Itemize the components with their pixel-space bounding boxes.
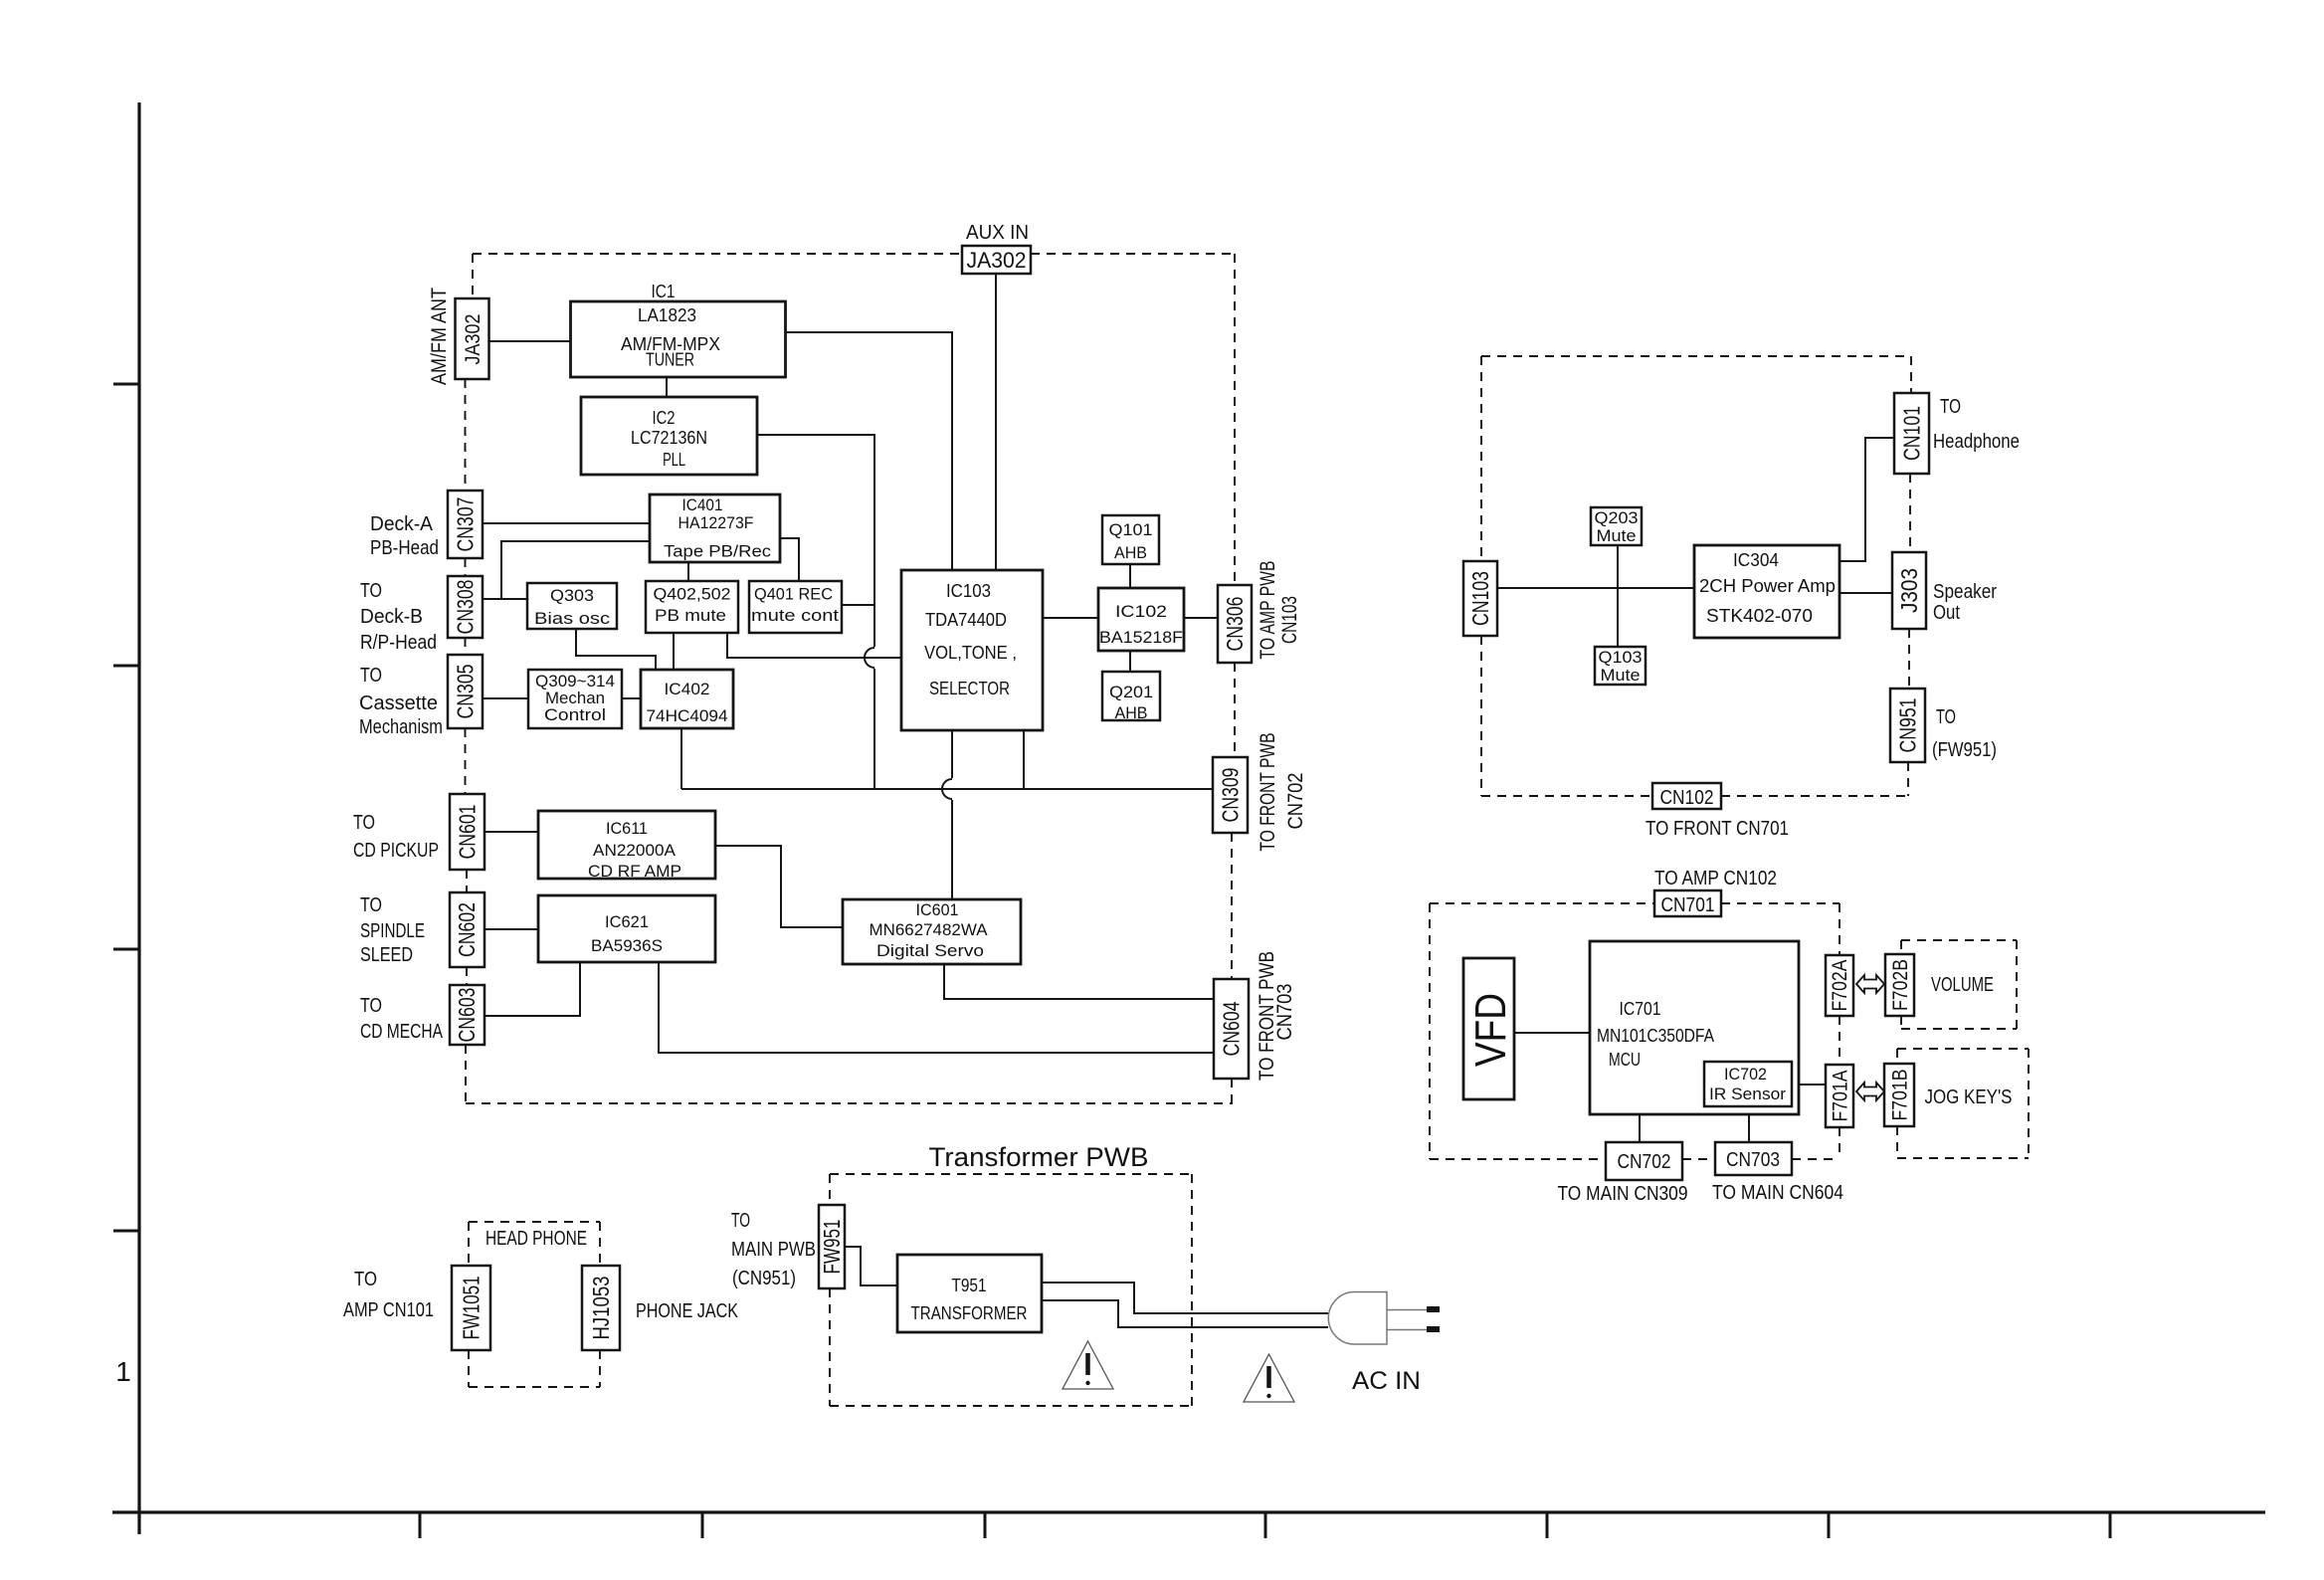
svg-text:AMP CN101: AMP CN101 [343, 1299, 434, 1321]
svg-text:Tape PB/Rec: Tape PB/Rec [664, 542, 772, 561]
svg-text:CN308: CN308 [453, 580, 479, 635]
IC block IC102 BA15218F [1098, 588, 1184, 651]
label TO (FW951) [1932, 706, 1997, 761]
svg-text:SLEED: SLEED [360, 944, 413, 966]
svg-text:T951: T951 [952, 1276, 987, 1295]
transistor block Q309~314 mechan control [528, 670, 622, 728]
svg-text:JA302: JA302 [967, 248, 1027, 273]
svg-text:Deck-B: Deck-B [360, 606, 423, 628]
svg-text:Bias osc: Bias osc [534, 609, 611, 628]
wire IC1 to IC2 [666, 377, 668, 397]
transistor block Q201 AHB [1102, 672, 1160, 722]
wire T951 AC line B [1042, 1300, 1328, 1327]
svg-text:IC102: IC102 [1115, 602, 1167, 621]
frame bottom ticks [420, 1512, 2110, 1538]
connector J303 [1892, 552, 1926, 629]
AC plug prong 2 [1387, 1326, 1440, 1332]
svg-text:TO: TO [360, 894, 382, 916]
svg-text:CN307: CN307 [453, 497, 479, 552]
svg-text:AC IN: AC IN [1352, 1367, 1421, 1395]
IC block IC701 MN101C350DFA MCU [1590, 941, 1799, 1114]
transistor block Q101 AHB [1102, 515, 1159, 564]
svg-text:1: 1 [115, 1356, 131, 1387]
amp PWB dashed border bottom seg1 [1481, 795, 1652, 797]
svg-text:PB mute: PB mute [655, 606, 726, 625]
svg-text:IC402: IC402 [665, 680, 710, 698]
main PWB dashed border right seg4 [1231, 1079, 1233, 1103]
amp PWB dashed border left seg1 [1480, 356, 1482, 561]
wire IC402 to bus corner [680, 728, 682, 789]
label TO FRONT CN701 [1646, 818, 1789, 840]
svg-text:CN703: CN703 [1726, 1149, 1780, 1171]
svg-text:PHONE JACK: PHONE JACK [636, 1300, 739, 1322]
dashed link CN308 to CN305 [465, 638, 467, 655]
svg-text:CN702: CN702 [1618, 1151, 1671, 1173]
wire IC601 to CN604 [944, 964, 1214, 999]
transistor block Q103 mute [1595, 647, 1646, 685]
svg-text:HEAD PHONE: HEAD PHONE [485, 1228, 587, 1250]
svg-text:IC103: IC103 [946, 581, 991, 601]
wire FW951 to T951 [845, 1247, 897, 1285]
svg-text:74HC4094: 74HC4094 [647, 706, 728, 725]
AC plug body [1328, 1292, 1387, 1345]
connector F701A [1826, 1065, 1853, 1127]
label Speaker Out [1933, 581, 1997, 624]
connector CN604 [1214, 979, 1249, 1079]
wire Q303 to IC402 [576, 629, 656, 670]
label TO CD MECHA [360, 995, 444, 1043]
svg-text:IC702: IC702 [1724, 1065, 1767, 1084]
wire Q402 to IC103 [727, 633, 901, 658]
svg-text:CN702: CN702 [1284, 773, 1307, 830]
dashed link CN603 to border [465, 1045, 467, 1103]
svg-text:Q203: Q203 [1595, 508, 1639, 527]
svg-text:F702A: F702A [1829, 960, 1851, 1012]
label TO FRONT PWB CN702 [1257, 733, 1307, 852]
svg-text:TO: TO [1940, 396, 1961, 418]
label HEAD PHONE [485, 1228, 587, 1250]
svg-text:TO FRONT CN701: TO FRONT CN701 [1646, 818, 1789, 840]
svg-text:CN603: CN603 [454, 988, 480, 1043]
connector CN102 [1652, 783, 1721, 809]
IC block IC1 LA1823 tuner [571, 301, 786, 377]
warning triangle inside transformer box [1063, 1341, 1113, 1389]
svg-text:CN101: CN101 [1899, 406, 1925, 461]
label VOLUME [1931, 974, 1994, 996]
frame bottom border line [112, 1510, 2265, 1513]
svg-text:BA15218F: BA15218F [1099, 628, 1183, 647]
dashed box JOG KEY'S [1897, 1049, 2029, 1158]
label Deck-A PB-Head [370, 513, 439, 559]
connector JA302 AM/FM ANT [456, 298, 489, 379]
svg-text:CN601: CN601 [455, 805, 481, 860]
wire CN103 to IC304 [1497, 587, 1694, 589]
svg-text:PB-Head: PB-Head [370, 537, 439, 559]
dashed link CN702 to CN703 [1682, 1158, 1715, 1160]
frame left tick 4 [113, 1230, 139, 1233]
front PWB dashed border top seg1 [1430, 902, 1654, 904]
label PHONE JACK [636, 1300, 739, 1322]
svg-text:CN305: CN305 [453, 665, 479, 719]
svg-text:LC72136N: LC72136N [631, 428, 707, 448]
IC block IC401 HA12273F [650, 494, 780, 562]
connector F701B [1884, 1064, 1914, 1126]
label TO SPINDLE SLEED [360, 894, 425, 966]
dashed box VOLUME [1901, 940, 2017, 1029]
frame left border line [137, 102, 140, 1534]
svg-text:CN309: CN309 [1218, 768, 1244, 823]
zone label 1 [115, 1356, 131, 1387]
svg-text:Out: Out [1933, 602, 1960, 624]
svg-text:TO: TO [353, 812, 375, 834]
label AC IN [1352, 1367, 1421, 1395]
dashed link F702A to F701A [1839, 1016, 1840, 1065]
svg-text:SPINDLE: SPINDLE [360, 920, 425, 942]
connector CN309 [1213, 757, 1248, 833]
wire CN601 to IC611 [484, 831, 538, 833]
connector F702B [1885, 954, 1914, 1016]
connector CN306 [1218, 585, 1252, 663]
svg-text:TO: TO [354, 1269, 377, 1290]
svg-text:FW1051: FW1051 [459, 1277, 484, 1340]
IC block IC103 TDA7440D selector [901, 570, 1043, 730]
svg-text:IC304: IC304 [1733, 550, 1779, 570]
bus wire to CN309 [681, 788, 1213, 790]
svg-text:AM/FM ANT: AM/FM ANT [428, 288, 451, 385]
svg-text:TO AMP CN102: TO AMP CN102 [1654, 868, 1777, 889]
dashed link CN601 to CN602 [466, 870, 468, 892]
double arrow F702A-F702B [1856, 975, 1884, 993]
dashed link CN305 to CN601 [465, 728, 467, 794]
connector JA302 AUX IN [962, 246, 1031, 274]
svg-text:CN306: CN306 [1222, 597, 1248, 652]
connector CN305 [448, 655, 483, 728]
svg-text:TDA7440D: TDA7440D [925, 610, 1007, 630]
wire Q402 to IC402 [673, 633, 675, 670]
wire IC611 to IC601 [715, 846, 843, 927]
svg-text:F701B: F701B [1889, 1070, 1912, 1121]
svg-text:CN604: CN604 [1219, 1001, 1245, 1056]
wire IC401 to Q401 [780, 538, 799, 581]
svg-text:MN101C350DFA: MN101C350DFA [1597, 1026, 1714, 1046]
label AUX IN [966, 222, 1029, 244]
svg-text:IC701: IC701 [1620, 999, 1661, 1019]
svg-text:TO FRONT PWB: TO FRONT PWB [1257, 733, 1279, 852]
svg-text:CD PICKUP: CD PICKUP [353, 840, 439, 862]
svg-text:Q401 REC: Q401 REC [754, 585, 833, 604]
IC block IC601 MN6627482WA digital servo [843, 899, 1021, 964]
svg-text:CN103: CN103 [1467, 571, 1493, 626]
dashed link CN307 to CN308 [465, 558, 467, 576]
wire IC701 to CN702 [1639, 1114, 1641, 1142]
svg-text:CN103: CN103 [1278, 596, 1301, 644]
svg-text:TO: TO [360, 580, 382, 602]
svg-text:SELECTOR: SELECTOR [929, 679, 1010, 698]
IC block IC304 2CH power amp [1694, 545, 1840, 638]
amp PWB dashed border left seg2 [1480, 636, 1482, 796]
wire IC103 to bus [1023, 730, 1025, 789]
label TO CD PICKUP [353, 812, 439, 862]
svg-text:IC401: IC401 [682, 495, 723, 514]
IC block IC2 LC72136N PLL [581, 397, 757, 475]
dashed box HEAD PHONE [469, 1222, 600, 1387]
connector CN101 [1894, 393, 1929, 474]
label TO FRONT PWB CN703 [1256, 951, 1296, 1081]
label TO MAIN CN604 [1712, 1182, 1843, 1204]
connector HJ1053 [582, 1266, 620, 1350]
label TO AMP CN101 [343, 1269, 434, 1321]
svg-text:BA5936S: BA5936S [591, 936, 663, 955]
wire IC304 to J303 [1840, 592, 1892, 594]
display block VFD [1463, 958, 1515, 1099]
svg-text:Mute: Mute [1601, 666, 1641, 685]
svg-text:VOLUME: VOLUME [1931, 974, 1994, 996]
wire JA302 ANT to IC1 [489, 340, 571, 342]
main PWB dashed border right seg3 [1231, 833, 1233, 979]
svg-text:CN701: CN701 [1661, 894, 1715, 916]
label AM/FM ANT [428, 288, 451, 385]
svg-text:TO: TO [360, 665, 382, 687]
svg-text:Speaker: Speaker [1933, 581, 1997, 603]
dashed link CN951 to border [1907, 762, 1909, 796]
svg-text:CD RF AMP: CD RF AMP [588, 862, 681, 881]
dashed link JA302 to CN307 [465, 379, 467, 491]
connector FW951 [819, 1205, 845, 1288]
wire T951 AC line A [1042, 1283, 1328, 1313]
label TO Deck-B R/P-Head [360, 580, 437, 654]
main PWB dashed border left drop [472, 254, 474, 298]
svg-text:IR Sensor: IR Sensor [1709, 1085, 1786, 1103]
svg-text:F702B: F702B [1889, 959, 1912, 1011]
connector CN307 [448, 491, 483, 558]
svg-text:Q101: Q101 [1109, 520, 1153, 539]
connector CN602 [450, 892, 484, 967]
svg-text:TO: TO [731, 1210, 750, 1232]
warning triangle near AC IN [1244, 1354, 1294, 1402]
svg-text:(CN951): (CN951) [732, 1268, 796, 1289]
svg-text:Headphone: Headphone [1933, 431, 2020, 453]
label TO AMP PWB CN103 [1257, 561, 1301, 660]
connector CN308 [448, 576, 483, 638]
wire CN307 to IC401 [483, 522, 650, 524]
dashed link CN101 to J303 [1909, 474, 1911, 552]
svg-text:TO: TO [360, 995, 382, 1017]
svg-text:LA1823: LA1823 [638, 305, 696, 325]
main PWB dashed border right seg1 [1234, 254, 1236, 585]
main PWB dashed border top-left [473, 253, 962, 255]
svg-text:IC611: IC611 [606, 819, 648, 838]
amp PWB dashed border right seg1 [1910, 356, 1912, 393]
wire JA302 AUX to IC103 top [995, 274, 997, 570]
label TO MAIN PWB (CN951) [731, 1210, 816, 1289]
svg-text:IC601: IC601 [916, 900, 959, 919]
svg-text:Mute: Mute [1597, 526, 1637, 545]
frame left tick 1 [113, 383, 139, 386]
connector CN103 [1463, 561, 1497, 636]
svg-text:mute cont: mute cont [751, 606, 839, 625]
svg-text:Transformer PWB: Transformer PWB [929, 1142, 1149, 1172]
connector F702A [1826, 955, 1853, 1016]
connector CN701 [1654, 890, 1721, 916]
svg-text:Deck-A: Deck-A [370, 513, 434, 535]
wire CN308 to Q303 [483, 598, 527, 600]
svg-text:Mechanism: Mechanism [359, 716, 443, 738]
dashed link CN602 to CN603 [466, 967, 468, 985]
label TO Cassette Mechanism [359, 665, 443, 738]
svg-text:HA12273F: HA12273F [678, 513, 754, 532]
front PWB dashed border bottom seg2 [1792, 1158, 1840, 1160]
svg-text:TRANSFORMER: TRANSFORMER [911, 1303, 1028, 1323]
svg-text:HJ1053: HJ1053 [588, 1277, 614, 1340]
IC block IC621 BA5936S [538, 895, 715, 962]
amp PWB dashed border top [1481, 355, 1911, 357]
front PWB dashed border right seg1 [1839, 903, 1840, 955]
svg-text:Q402,502: Q402,502 [654, 585, 731, 604]
wire mechan control to IC402 [622, 697, 641, 699]
transistor block Q203 mute [1591, 507, 1642, 545]
dashed link J303 to CN951 [1908, 629, 1910, 689]
connector FW1051 [452, 1266, 490, 1350]
svg-text:PLL: PLL [663, 450, 685, 470]
svg-text:TUNER: TUNER [646, 350, 694, 370]
svg-text:IC2: IC2 [653, 408, 676, 428]
svg-text:Digital Servo: Digital Servo [876, 941, 984, 960]
transformer block T951 [897, 1255, 1042, 1332]
main PWB dashed border bottom [466, 1102, 1233, 1104]
transistor block Q402,502 PB mute [646, 581, 738, 633]
svg-text:JOG KEY'S: JOG KEY'S [1925, 1086, 2013, 1108]
svg-text:CN703: CN703 [1273, 984, 1296, 1041]
connector CN603 [450, 985, 484, 1045]
wire branch to IC401 pin2 [501, 541, 650, 599]
amp PWB dashed border bottom seg2 [1721, 795, 1908, 797]
wire CN305 to mechan control [483, 697, 528, 699]
wire Q401 to IC2 net [842, 604, 874, 606]
wire IC701 to F701A [1799, 1084, 1826, 1086]
svg-text:(FW951): (FW951) [1932, 739, 1997, 761]
wire Q101 to IC102 [1129, 564, 1131, 588]
label JOG KEY'S [1925, 1086, 2013, 1108]
label TO AMP CN102 [1654, 868, 1777, 889]
frame left tick 3 [113, 948, 139, 951]
transistor block Q303 bias osc [527, 583, 617, 629]
svg-text:MN6627482WA: MN6627482WA [870, 920, 989, 939]
wire IC1 to IC103 top [785, 332, 952, 570]
frame left tick 2 [113, 665, 139, 668]
svg-text:TO AMP PWB: TO AMP PWB [1257, 561, 1279, 660]
connector CN703 [1715, 1142, 1792, 1175]
main PWB dashed border right seg2 [1234, 663, 1236, 757]
front PWB dashed border bottom seg1 [1430, 1158, 1606, 1160]
wire IC702 to CN703 [1748, 1106, 1750, 1142]
main PWB dashed border top-right [1031, 253, 1235, 255]
IC block IC611 AN22000A CD RF AMP [538, 811, 715, 881]
svg-text:2CH Power Amp: 2CH Power Amp [1699, 576, 1836, 596]
front PWB dashed border left [1429, 903, 1431, 1159]
wire IC621 to CN604 [659, 962, 1214, 1053]
wire VFD to IC701 [1514, 1032, 1590, 1034]
wire IC102 to CN306 [1184, 617, 1218, 619]
svg-text:R/P-Head: R/P-Head [360, 632, 437, 654]
wire IC304 to CN101 [1840, 438, 1894, 561]
svg-text:MCU: MCU [1609, 1050, 1641, 1070]
wire IC102 to Q201 [1129, 651, 1131, 672]
svg-text:IC621: IC621 [605, 912, 649, 931]
front PWB dashed border top seg2 [1721, 902, 1840, 904]
svg-text:J303: J303 [1896, 568, 1922, 613]
svg-text:AUX IN: AUX IN [966, 222, 1029, 244]
svg-text:AN22000A: AN22000A [593, 841, 677, 860]
svg-text:Q201: Q201 [1109, 683, 1153, 701]
transistor block Q401 REC mute cont [749, 581, 842, 633]
connector CN601 [450, 794, 484, 870]
label TO Headphone [1933, 396, 2020, 453]
svg-text:STK402-070: STK402-070 [1706, 606, 1813, 626]
svg-text:CD MECHA: CD MECHA [360, 1021, 444, 1043]
wire IC2 to bus [757, 435, 874, 789]
svg-text:F701A: F701A [1830, 1071, 1852, 1122]
svg-text:AHB: AHB [1115, 703, 1148, 722]
svg-text:JA302: JA302 [462, 314, 484, 365]
svg-text:TO MAIN CN309: TO MAIN CN309 [1558, 1183, 1688, 1205]
wire IC401 to Q402 [687, 562, 689, 581]
IC block IC702 IR sensor [1704, 1062, 1792, 1106]
svg-text:CN951: CN951 [1895, 698, 1921, 753]
svg-text:VFD: VFD [1466, 993, 1515, 1067]
wire CN602 to IC621 [484, 928, 538, 930]
wire Q203 to Q103 [1617, 545, 1619, 647]
svg-text:VOL,TONE ,: VOL,TONE , [924, 643, 1017, 663]
label TO MAIN CN309 [1558, 1183, 1688, 1205]
svg-text:Control: Control [544, 705, 606, 724]
svg-text:CN602: CN602 [454, 902, 480, 957]
connector CN702 [1606, 1142, 1682, 1180]
connector CN951 [1890, 689, 1925, 762]
svg-text:TO: TO [1936, 706, 1956, 728]
wire IC103 to IC102 [1043, 617, 1098, 619]
svg-text:FW951: FW951 [819, 1220, 845, 1275]
svg-text:MAIN PWB: MAIN PWB [731, 1239, 816, 1261]
svg-text:TO MAIN CN604: TO MAIN CN604 [1712, 1182, 1843, 1204]
svg-text:AHB: AHB [1114, 543, 1147, 562]
dashed link F701A to border [1839, 1127, 1840, 1159]
svg-text:Cassette: Cassette [359, 692, 438, 714]
double arrow F701A-F701B [1856, 1083, 1884, 1100]
svg-text:IC1: IC1 [652, 282, 676, 301]
svg-text:Q303: Q303 [550, 586, 594, 605]
wire IC103 to IC601 [942, 730, 952, 899]
AC plug prong 1 [1387, 1306, 1440, 1312]
label Transformer PWB [929, 1142, 1149, 1172]
wire CN603 to IC621 [484, 962, 580, 1016]
dashed box transformer PWB [830, 1174, 1192, 1406]
svg-text:CN102: CN102 [1660, 787, 1714, 809]
IC block IC402 74HC4094 [641, 670, 733, 728]
svg-text:Q103: Q103 [1599, 648, 1643, 667]
label IC1 [652, 282, 676, 301]
